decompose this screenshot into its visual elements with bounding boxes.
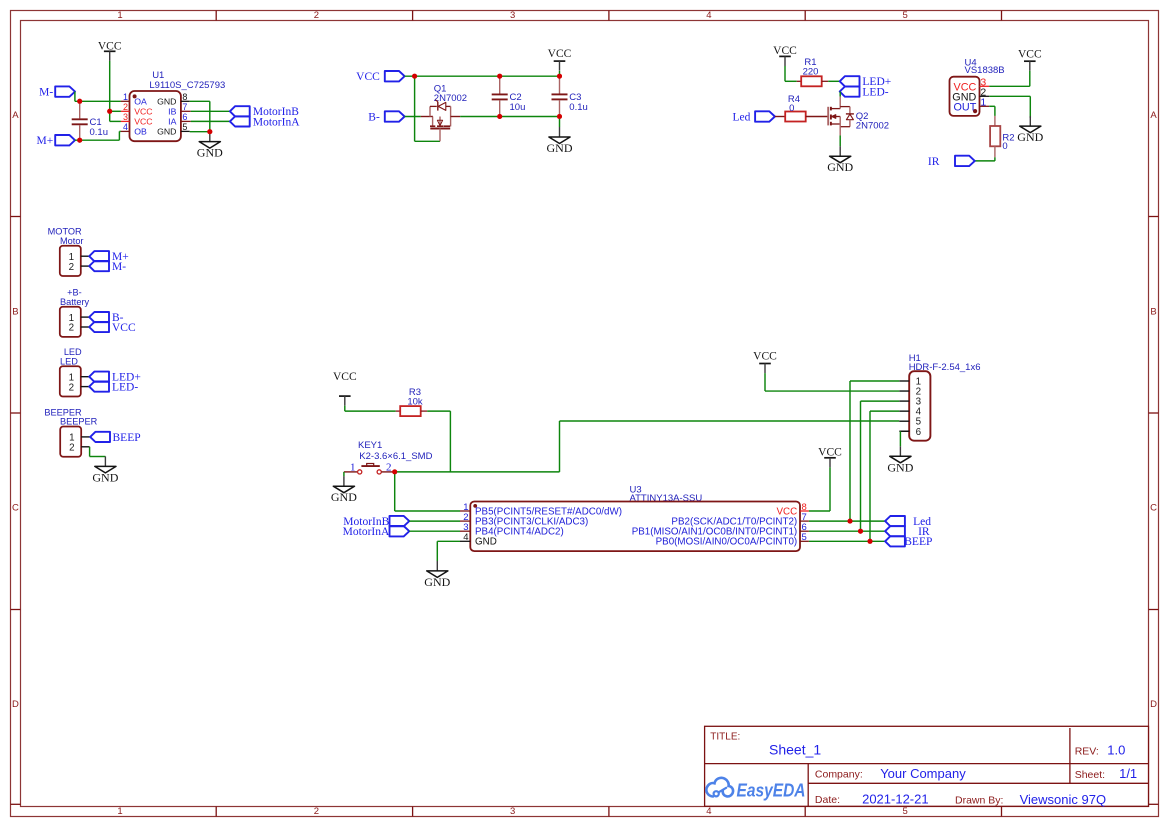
wire U1 pin8 to GND bbox=[190, 101, 210, 131]
svg-text:1: 1 bbox=[117, 10, 122, 21]
svg-text:Your Company: Your Company bbox=[880, 766, 966, 781]
junction pin5/H1 pin4 bbox=[868, 539, 873, 544]
svg-text:3: 3 bbox=[510, 806, 515, 817]
svg-text:L9110S_C725793: L9110S_C725793 bbox=[149, 80, 225, 91]
svg-text:Sheet:: Sheet: bbox=[1075, 769, 1105, 781]
junction C3 top bbox=[557, 74, 562, 79]
svg-text:OUT: OUT bbox=[954, 102, 977, 114]
svg-text:Company:: Company: bbox=[815, 768, 863, 780]
net flag M- (connector) bbox=[89, 261, 126, 273]
connector Battery +B- bbox=[60, 288, 90, 337]
svg-text:0: 0 bbox=[1002, 141, 1007, 152]
net flag MotorInA (U3) bbox=[343, 526, 410, 538]
svg-text:GND: GND bbox=[92, 470, 118, 484]
svg-text:GND: GND bbox=[331, 490, 357, 504]
op-amp U4 VS1838B bbox=[950, 58, 1005, 116]
junction dot C3 top bbox=[557, 74, 562, 79]
junction dot VCC/Q1 bbox=[412, 74, 417, 79]
svg-text:KEY1: KEY1 bbox=[358, 440, 382, 451]
wire KEY1 down to U3 pin1 bbox=[395, 472, 460, 511]
op-amp U3 ATTINY13A-SSU bbox=[460, 484, 809, 551]
junction dot KEY1 pin2 net bbox=[392, 469, 397, 474]
net flag B- bbox=[368, 111, 404, 123]
wire MotorInB to U3 pin2 bbox=[409, 520, 460, 522]
svg-text:2021-12-21: 2021-12-21 bbox=[862, 792, 929, 807]
EasyEDA logo bbox=[706, 778, 805, 801]
svg-text:IA: IA bbox=[168, 117, 176, 127]
svg-text:IR: IR bbox=[928, 156, 940, 168]
svg-text:VCC: VCC bbox=[548, 48, 572, 60]
op-amp U1 L9110S_C725793 bbox=[121, 70, 225, 141]
resistor R3 10k bbox=[396, 387, 428, 416]
svg-text:B-: B- bbox=[368, 111, 380, 123]
ground (C3) bbox=[547, 127, 573, 155]
net flag LED+ bbox=[840, 76, 892, 88]
wire VCC to U1 pins 2/3 bbox=[110, 61, 121, 122]
svg-text:4: 4 bbox=[463, 532, 468, 543]
svg-text:LED-: LED- bbox=[862, 87, 888, 99]
svg-text:GND: GND bbox=[424, 575, 450, 589]
net flag BEEP (U3) bbox=[885, 536, 932, 548]
ground (U3) bbox=[424, 561, 450, 589]
wire B- to Q1 bbox=[405, 116, 421, 118]
svg-text:Sheet_1: Sheet_1 bbox=[769, 742, 821, 758]
wire LED- to Q2 drain bbox=[839, 92, 841, 97]
svg-text:1/1: 1/1 bbox=[1119, 766, 1137, 781]
net flag VCC (U4) bbox=[1018, 48, 1042, 70]
svg-text:2: 2 bbox=[69, 262, 74, 273]
ground (U4) bbox=[1017, 116, 1043, 144]
svg-text:C: C bbox=[12, 503, 19, 514]
svg-text:D: D bbox=[1150, 699, 1157, 710]
net flag MotorInB (U3) bbox=[343, 516, 409, 528]
junction dot C3 bottom bbox=[557, 114, 562, 119]
junction C2 top bbox=[497, 74, 502, 79]
ground (BEEPER) bbox=[92, 456, 118, 484]
resistor R1 220 bbox=[797, 57, 829, 86]
svg-text:EasyEDA: EasyEDA bbox=[737, 780, 806, 800]
ground (Q2) bbox=[827, 146, 853, 174]
wire R3 to KEY1 net bbox=[427, 411, 450, 472]
wire BEEPER pin2 to GND bbox=[90, 447, 106, 457]
connector H1 HDR-F-2.54_1x6 bbox=[899, 353, 980, 441]
svg-text:VCC: VCC bbox=[1018, 48, 1042, 60]
net flag Led (U3) bbox=[885, 516, 931, 528]
wire U3 pin5 to BEEP bbox=[809, 540, 885, 542]
net flag IR (U3) bbox=[885, 526, 930, 538]
svg-text:PB0(MOSI/AIN0/OC0A/PCINT0): PB0(MOSI/AIN0/OC0A/PCINT0) bbox=[656, 537, 798, 548]
wire U3 pin4 to GND bbox=[437, 541, 460, 561]
resistor R2 0 bbox=[990, 116, 1014, 157]
svg-text:Viewsonic 97Q: Viewsonic 97Q bbox=[1020, 792, 1106, 807]
svg-text:GND: GND bbox=[197, 146, 223, 160]
svg-text:4: 4 bbox=[706, 10, 711, 21]
wire VCC to R1 bbox=[785, 66, 797, 81]
svg-text:M+: M+ bbox=[36, 135, 53, 147]
svg-text:1: 1 bbox=[980, 96, 986, 108]
capacitor C2 10u bbox=[492, 76, 526, 116]
connector LED bbox=[60, 347, 89, 396]
connector BEEPER bbox=[44, 407, 97, 456]
wire KEY1 pin1 to GND bbox=[343, 472, 345, 476]
svg-text:2: 2 bbox=[314, 10, 319, 21]
junction VCC/pin2 bbox=[107, 109, 112, 114]
svg-text:4: 4 bbox=[123, 122, 128, 132]
net flag VCC (above C3) bbox=[548, 48, 572, 70]
net flag LED+ (connector) bbox=[89, 372, 141, 384]
wire H1 pin6 to GND bbox=[900, 431, 909, 446]
svg-text:2: 2 bbox=[386, 461, 392, 473]
svg-text:D: D bbox=[12, 699, 19, 710]
svg-text:GND: GND bbox=[547, 141, 573, 155]
svg-text:MotorInA: MotorInA bbox=[253, 116, 300, 128]
svg-text:2: 2 bbox=[69, 323, 74, 334]
svg-text:220: 220 bbox=[803, 67, 819, 78]
junction C2 bottom bbox=[497, 114, 502, 119]
svg-text:BEEP: BEEP bbox=[113, 432, 141, 444]
net flag VCC (R1) bbox=[773, 45, 797, 66]
wire U3 pin7 to Led bbox=[809, 520, 885, 522]
net flag VCC (R3) bbox=[333, 371, 357, 406]
svg-text:Battery: Battery bbox=[60, 297, 90, 307]
svg-text:VCC: VCC bbox=[333, 371, 357, 383]
svg-text:5: 5 bbox=[802, 532, 807, 543]
net flag BEEP bbox=[90, 432, 140, 444]
svg-text:VCC: VCC bbox=[818, 446, 842, 458]
junction dot M-/C1 bbox=[77, 99, 82, 104]
net flag LED- bbox=[840, 87, 889, 99]
svg-text:1: 1 bbox=[350, 461, 356, 473]
wire H1 pin2 to VCC bbox=[765, 373, 899, 391]
capacitor C1 0.1u bbox=[72, 101, 108, 140]
title block bbox=[705, 726, 1149, 807]
svg-text:A: A bbox=[12, 110, 19, 121]
net flag MotorInA bbox=[230, 116, 300, 128]
svg-text:VCC: VCC bbox=[134, 106, 152, 116]
svg-text:2N7002: 2N7002 bbox=[434, 93, 467, 104]
svg-text:IB: IB bbox=[168, 106, 176, 116]
svg-text:OB: OB bbox=[134, 127, 147, 137]
svg-text:10k: 10k bbox=[407, 396, 423, 407]
wire VCC to C3 bbox=[559, 71, 561, 76]
junction dot U3 pin6/H1 bbox=[858, 529, 863, 534]
connector MOTOR bbox=[48, 227, 90, 276]
wire R2 to IR bbox=[975, 157, 995, 161]
junction C3 bottom bbox=[557, 114, 562, 119]
svg-text:VS1838B: VS1838B bbox=[965, 65, 1005, 76]
net flag LED- (connector) bbox=[89, 382, 138, 394]
wire VCC to R3 bbox=[345, 406, 396, 411]
junction dot U3 pin7/H1 bbox=[848, 519, 853, 524]
capacitor C3 0.1u bbox=[552, 76, 588, 116]
svg-text:GND: GND bbox=[157, 127, 176, 137]
junction dot M+/C1 bbox=[77, 138, 82, 143]
junction dot C2 top bbox=[497, 74, 502, 79]
wire U3 pin6 to IR bbox=[809, 530, 885, 532]
wire U4 pin3 to VCC bbox=[989, 71, 1030, 87]
svg-text:MotorInA: MotorInA bbox=[343, 526, 390, 538]
svg-text:2: 2 bbox=[314, 806, 319, 817]
wire U1 pin7 to MotorInB bbox=[191, 110, 230, 112]
svg-text:2: 2 bbox=[69, 382, 74, 393]
wire H1 pin3 to U3 pin6 bbox=[861, 401, 900, 531]
wire U4 pin1 to R2 bbox=[989, 106, 995, 116]
svg-text:10u: 10u bbox=[510, 102, 526, 113]
svg-text:Motor: Motor bbox=[60, 236, 84, 246]
wire U1 pin5 to GND bbox=[190, 131, 210, 133]
wire R1 to LED+ bbox=[828, 80, 840, 82]
svg-text:BEEPER: BEEPER bbox=[60, 417, 98, 427]
svg-text:LED: LED bbox=[60, 357, 78, 367]
wire U4 pin2 to GND bbox=[989, 96, 1030, 118]
junction M+/C1 bbox=[77, 138, 82, 143]
net flag VCC (U3 pin8) bbox=[818, 446, 842, 467]
wire C3 to GND bbox=[559, 117, 561, 128]
net flag Led bbox=[733, 111, 775, 123]
svg-text:GND: GND bbox=[475, 537, 497, 548]
wire M- to U1 pin1 bbox=[75, 92, 121, 102]
wire U3 pin8 to VCC bbox=[809, 467, 830, 511]
junction pin6/H1 pin3 bbox=[858, 529, 863, 534]
svg-text:Date:: Date: bbox=[815, 794, 840, 806]
svg-text:VCC: VCC bbox=[112, 322, 136, 334]
junction M-/C1 bbox=[77, 99, 82, 104]
junction dot C2 bottom bbox=[497, 114, 502, 119]
wire Q2 source to GND bbox=[839, 135, 841, 146]
svg-text:B: B bbox=[12, 306, 18, 317]
net flag B- (connector) bbox=[89, 312, 123, 324]
svg-text:B: B bbox=[1150, 306, 1156, 317]
svg-text:5: 5 bbox=[902, 10, 907, 21]
junction pin7/H1 pin1 bbox=[848, 519, 853, 524]
wire MotorInA to U3 pin3 bbox=[409, 530, 460, 532]
svg-text:M-: M- bbox=[39, 87, 53, 99]
svg-text:4: 4 bbox=[706, 806, 711, 817]
wire H1 pin4 to U3 pin5 bbox=[870, 411, 899, 541]
net flag M+ bbox=[36, 135, 75, 147]
junction U1 GND bbox=[207, 129, 212, 134]
svg-text:GND: GND bbox=[887, 460, 913, 474]
net flag M- bbox=[39, 86, 75, 98]
svg-text:LED-: LED- bbox=[112, 382, 138, 394]
transistor Q1 2N7002 bbox=[421, 84, 467, 142]
svg-text:GND: GND bbox=[157, 96, 176, 106]
svg-text:0.1u: 0.1u bbox=[90, 127, 109, 138]
svg-text:VCC: VCC bbox=[356, 71, 380, 83]
svg-text:Drawn By:: Drawn By: bbox=[955, 794, 1003, 806]
svg-text:VCC: VCC bbox=[753, 351, 777, 363]
net flag IR bbox=[928, 156, 975, 168]
svg-text:REV:: REV: bbox=[1075, 746, 1099, 758]
junction VCC/Q1 bbox=[412, 74, 417, 79]
svg-text:3: 3 bbox=[123, 112, 128, 122]
svg-text:5: 5 bbox=[902, 806, 907, 817]
ground (H1) bbox=[887, 446, 913, 474]
junction KEY1 pin2 bbox=[392, 469, 397, 474]
ground (U1) bbox=[197, 132, 223, 160]
wire VCC rail bbox=[405, 75, 560, 77]
svg-text:6: 6 bbox=[182, 112, 187, 122]
svg-text:2: 2 bbox=[123, 102, 128, 112]
svg-text:5: 5 bbox=[182, 122, 187, 132]
svg-text:3: 3 bbox=[510, 10, 515, 21]
svg-text:VCC: VCC bbox=[773, 45, 797, 57]
resistor R4 0 bbox=[775, 94, 828, 121]
svg-text:0: 0 bbox=[789, 103, 794, 114]
svg-text:7: 7 bbox=[182, 102, 187, 112]
svg-text:8: 8 bbox=[182, 92, 187, 102]
svg-text:6: 6 bbox=[916, 427, 922, 438]
net flag VCC (H1 pin2) bbox=[753, 351, 777, 374]
svg-text:A: A bbox=[1150, 110, 1157, 121]
svg-text:2N7002: 2N7002 bbox=[856, 121, 889, 132]
wire VCC down to Q1 gate bbox=[415, 76, 440, 141]
svg-text:VCC: VCC bbox=[134, 117, 152, 127]
svg-text:GND: GND bbox=[827, 160, 853, 174]
svg-text:0.1u: 0.1u bbox=[569, 102, 588, 113]
svg-text:2: 2 bbox=[69, 443, 74, 454]
transistor Q2 2N7002 bbox=[828, 97, 889, 136]
wire reset row up to H1 pin5 bbox=[560, 421, 900, 472]
wire M+ to U1 pin4 bbox=[75, 131, 121, 140]
svg-text:1.0: 1.0 bbox=[1107, 743, 1125, 758]
junction dot U1 GND net bbox=[207, 129, 212, 134]
svg-text:TITLE:: TITLE: bbox=[710, 731, 740, 742]
net flag MotorInB bbox=[230, 106, 299, 118]
wire Q1 to C2/C3 bottom rail bbox=[460, 116, 559, 118]
switch KEY1 K2-3.6x6.1_SMD bbox=[344, 440, 433, 474]
net flag VCC (battery rail) bbox=[356, 71, 404, 83]
net flag M+ (connector) bbox=[89, 251, 129, 263]
wire KEY1 to reset row bbox=[395, 471, 560, 473]
wire U1 pin6 to MotorInA bbox=[191, 120, 230, 122]
svg-text:OA: OA bbox=[134, 96, 147, 106]
net flag VCC (U1) bbox=[98, 41, 122, 61]
svg-text:M-: M- bbox=[112, 261, 126, 273]
junction dot VCC/U1 pin2 bbox=[107, 109, 112, 114]
ground (KEY1) bbox=[331, 476, 357, 504]
svg-text:C: C bbox=[1150, 503, 1157, 514]
svg-text:BEEP: BEEP bbox=[904, 536, 932, 548]
junction dot U3 pin5/H1 bbox=[868, 539, 873, 544]
net flag VCC (connector) bbox=[89, 322, 136, 334]
wire H1 pin1 to U3 pin7 bbox=[850, 381, 899, 521]
svg-text:K2-3.6×6.1_SMD: K2-3.6×6.1_SMD bbox=[359, 451, 432, 462]
svg-text:1: 1 bbox=[123, 92, 128, 102]
svg-text:1: 1 bbox=[117, 806, 122, 817]
svg-text:GND: GND bbox=[1017, 130, 1043, 144]
svg-text:Led: Led bbox=[733, 111, 751, 123]
